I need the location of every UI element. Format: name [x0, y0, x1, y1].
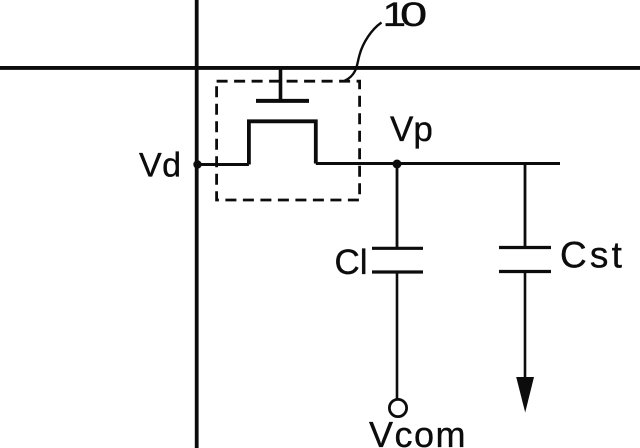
- gate bus line (horizontal): [0, 66, 640, 70]
- capacitor Cst top plate: [499, 246, 551, 249]
- svg-text:0: 0: [400, 0, 427, 34]
- Vcom terminal circle: [389, 399, 406, 416]
- node Vp dot: [393, 160, 402, 169]
- capacitor Cl top plate: [372, 247, 423, 250]
- wire Vp to capacitor Cst: [524, 164, 527, 248]
- capacitor Cst bottom plate: [499, 270, 551, 273]
- wire Vd node to Vp node: [197, 164, 560, 165]
- svg-text:Vd: Vd: [139, 147, 182, 185]
- node Vd dot: [193, 160, 201, 168]
- wire Vp to capacitor Cl: [396, 164, 399, 248]
- transistor gate stem: [279, 68, 283, 100]
- leader line to TFT box: [345, 23, 382, 81]
- svg-text:Vcom: Vcom: [369, 414, 467, 448]
- TFT dashed box 10: [217, 81, 360, 200]
- capacitor Cl bottom plate: [372, 270, 423, 273]
- transistor channel (source-drain hat): [249, 121, 316, 164]
- arrow terminal (down): [516, 377, 534, 413]
- wire Cl to Vcom terminal: [396, 272, 399, 400]
- svg-text:Cst: Cst: [560, 235, 625, 276]
- wire Cst to arrow: [524, 272, 527, 381]
- svg-text:Cl: Cl: [335, 243, 368, 282]
- transistor gate bar: [256, 99, 309, 103]
- svg-text:Vp: Vp: [390, 110, 433, 149]
- data bus line (vertical): [195, 0, 199, 448]
